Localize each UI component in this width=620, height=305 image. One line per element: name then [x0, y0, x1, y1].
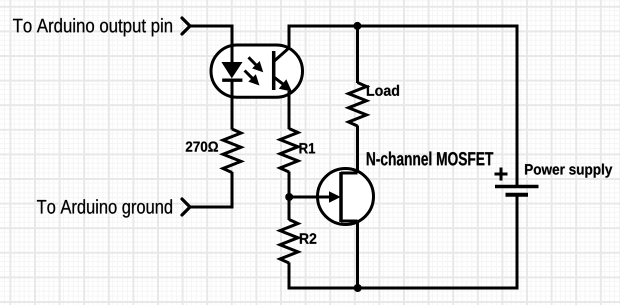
terminal: Arduino output pin connector	[182, 18, 190, 34]
transistor Q1 internals (gate bar, drain and source stubs)	[341, 172, 358, 222]
label: Power supply	[525, 164, 612, 178]
battery: power supply	[495, 168, 539, 195]
wire: top node to Load resistor	[356, 26, 359, 83]
wire: 270R to ground terminal	[190, 172, 233, 207]
wire: R1 to gate node	[288, 172, 291, 198]
wire: collector riser, top rail to battery positive	[289, 26, 517, 187]
resistor 270R	[223, 129, 241, 173]
junction: gate node	[285, 193, 293, 201]
terminal: Arduino ground connector	[182, 199, 190, 215]
wire: Load to MOSFET drain	[356, 126, 359, 174]
label: 270R value	[186, 141, 218, 151]
phototransistor (optocoupler output)	[274, 48, 291, 91]
wire: gate node to MOSFET gate (with arrow)	[289, 192, 340, 202]
light arrow 2	[245, 71, 259, 85]
light arrow 1	[249, 57, 263, 71]
label: R1	[300, 143, 316, 153]
label: R2	[300, 233, 316, 243]
wire: LED cathode to 270R	[231, 80, 234, 130]
junction: top node (load tap)	[353, 22, 361, 30]
wire: gate node to R2	[288, 197, 291, 220]
label: To Arduino output pin	[13, 18, 172, 36]
resistor R2	[280, 220, 298, 264]
wire: output pin terminal to LED anode	[190, 26, 233, 64]
wire: emitter to R1	[288, 91, 291, 129]
resistor Load	[349, 83, 367, 126]
resistor R1	[280, 129, 298, 173]
wire: MOSFET source to bottom rail	[356, 221, 359, 288]
wire: R2 to bottom rail, bottom rail to battery negative	[289, 195, 517, 289]
label: To Arduino ground	[37, 199, 172, 217]
label: Load	[367, 85, 399, 96]
label: N-channel MOSFET	[367, 152, 493, 166]
junction: source node on bottom rail	[354, 284, 362, 292]
diode D1 (optocoupler LED)	[222, 63, 242, 81]
optocoupler U1 body	[211, 45, 303, 97]
transistor Q1 body (N-channel MOSFET circle)	[318, 169, 374, 225]
